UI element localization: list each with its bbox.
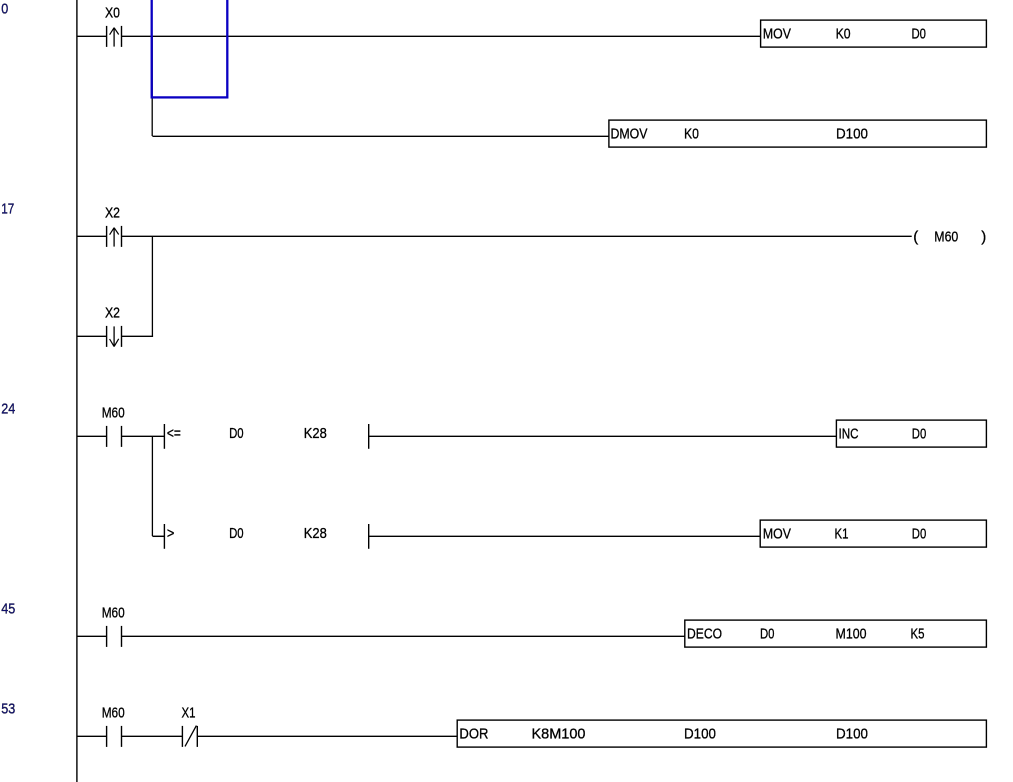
svg-text:D0: D0 <box>912 25 927 42</box>
instruction box MOV K0 D0 <box>761 20 987 47</box>
svg-text:MOV: MOV <box>763 525 791 542</box>
svg-text:M60: M60 <box>102 704 125 721</box>
svg-text:DOR: DOR <box>459 725 488 742</box>
svg-text:D0: D0 <box>912 525 927 542</box>
svg-text:D100: D100 <box>684 725 716 742</box>
svg-text:INC: INC <box>839 425 859 442</box>
instruction box INC D0 <box>836 420 986 447</box>
wire to MOV K1 box <box>369 535 761 537</box>
branch wire down from rung 24 <box>151 436 153 536</box>
svg-text:M60: M60 <box>102 604 125 621</box>
svg-text:K1: K1 <box>835 525 849 542</box>
svg-text:0: 0 <box>1 0 8 17</box>
svg-text:17: 17 <box>1 200 14 217</box>
svg-text:(: ( <box>913 228 918 245</box>
svg-text:>: > <box>167 525 175 542</box>
contact X2 falling edge <box>107 326 122 347</box>
svg-text:D0: D0 <box>912 425 927 442</box>
instruction box DMOV K0 D100 <box>609 120 987 147</box>
svg-text:M60: M60 <box>102 404 125 421</box>
wire rung 24 left <box>77 435 107 437</box>
svg-text:D100: D100 <box>836 725 868 742</box>
instruction box DOR K8M100 D100 D100 <box>457 720 986 747</box>
wire rung DMOV <box>152 135 609 137</box>
svg-text:X2: X2 <box>105 204 120 221</box>
contact X1 normally closed <box>182 726 197 747</box>
wire between contacts rung 53 <box>122 735 183 737</box>
branch wire down to DMOV rung <box>151 36 153 136</box>
svg-text:D0: D0 <box>229 525 244 542</box>
contact X2 rising edge <box>107 226 122 247</box>
wire rung 17b to branch <box>122 335 154 337</box>
wire rung 53 left <box>77 735 107 737</box>
instruction box MOV K1 D0 <box>760 520 986 547</box>
svg-text:D0: D0 <box>229 425 244 442</box>
svg-text:X1: X1 <box>182 704 196 721</box>
comparison contact > D0 K28 <box>164 524 368 549</box>
comparison contact <= D0 K28 <box>164 424 368 449</box>
svg-text:X2: X2 <box>105 304 120 321</box>
coil M60 <box>913 228 986 245</box>
contact M60 <box>107 426 122 447</box>
wire rung 0 to MOV box <box>122 35 761 37</box>
svg-text:M60: M60 <box>934 228 958 245</box>
wire rung 24b to comparison <box>152 535 164 537</box>
blue edit cursor cell <box>152 0 228 97</box>
svg-text:<=: <= <box>167 425 181 442</box>
wire rung 17 left <box>77 235 107 237</box>
wire rung 17 to coil <box>122 235 912 237</box>
svg-text:X0: X0 <box>105 4 120 21</box>
wire rung 24 to comparison <box>122 435 165 437</box>
svg-text:D0: D0 <box>760 625 775 642</box>
svg-text:K0: K0 <box>836 25 851 42</box>
svg-text:53: 53 <box>1 700 15 717</box>
wire rung 17b left <box>77 335 107 337</box>
wire rung 45 left <box>77 635 107 637</box>
wire rung 0 left <box>77 35 107 37</box>
svg-text:K5: K5 <box>911 625 925 642</box>
contact M60 rung 53 <box>107 726 122 747</box>
svg-text:): ) <box>981 228 986 245</box>
svg-text:DECO: DECO <box>687 625 722 642</box>
svg-text:MOV: MOV <box>763 25 791 42</box>
left power rail <box>76 0 78 782</box>
contact X0 rising edge <box>107 26 122 47</box>
contact M60 rung 45 <box>107 626 122 647</box>
svg-text:K8M100: K8M100 <box>532 725 586 742</box>
instruction box DECO D0 M100 K5 <box>685 620 987 647</box>
branch wire down from rung 17 <box>151 236 153 336</box>
svg-text:45: 45 <box>1 600 15 617</box>
wire rung 45 to DECO box <box>122 635 685 637</box>
wire rung 53 to DOR box <box>197 735 457 737</box>
svg-text:K28: K28 <box>304 425 327 442</box>
svg-text:K0: K0 <box>684 125 699 142</box>
svg-text:D100: D100 <box>836 125 868 142</box>
svg-text:K28: K28 <box>304 525 327 542</box>
svg-text:24: 24 <box>1 400 15 417</box>
svg-text:DMOV: DMOV <box>611 125 648 142</box>
wire to INC box <box>369 435 837 437</box>
svg-text:M100: M100 <box>836 625 867 642</box>
